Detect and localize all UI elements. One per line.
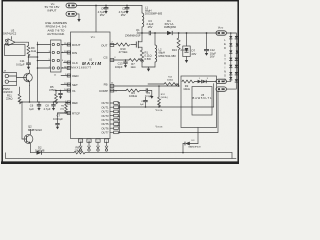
connector JU1 (jumper header) xyxy=(49,40,63,76)
resistor R7 xyxy=(110,59,143,70)
resistor R13 (feedback divider) xyxy=(172,32,189,86)
resistor R1 (sense) xyxy=(140,50,151,67)
node A (switch node) xyxy=(141,32,143,34)
connector K1 (VLED) xyxy=(216,31,226,35)
LED string 2 xyxy=(226,33,239,89)
diode D3 BAR43FILM xyxy=(182,128,200,154)
capacitor C6 xyxy=(29,102,41,111)
wire left bus xyxy=(37,42,51,102)
capacitor C7 (RT/CF) xyxy=(53,113,71,129)
pin SET xyxy=(61,83,78,87)
capacitor C4 xyxy=(98,5,109,17)
resistor R8 xyxy=(74,145,85,154)
border frame xyxy=(2,1,238,163)
wire FB net xyxy=(110,85,180,87)
pin OUT (gate drive) xyxy=(101,42,114,48)
capacitor C5 (comp) xyxy=(140,88,154,98)
diode D1 xyxy=(164,19,177,35)
wire VCC feed xyxy=(95,6,97,33)
ground (R1/L2) xyxy=(142,67,155,72)
wire to LED strings xyxy=(226,32,236,34)
transistor Q2 MMBT2222 xyxy=(22,125,42,153)
capacitor C13 xyxy=(115,59,128,69)
pin GND2 xyxy=(87,139,91,151)
pin GND4 xyxy=(104,139,108,151)
pin RT/CF xyxy=(58,111,81,115)
wire node B to D1 xyxy=(155,32,167,34)
resistor R14 xyxy=(148,77,179,86)
pin FB xyxy=(104,82,114,87)
op-amp U1 MAX16807 (main IC) xyxy=(71,32,111,139)
wire Q3 emitter xyxy=(29,86,31,103)
wire string1 return to OUT bus xyxy=(120,106,214,108)
resistor R12 xyxy=(158,85,168,108)
resistor R5 xyxy=(49,85,57,104)
box U5 network xyxy=(181,76,217,128)
pin DIN xyxy=(61,51,77,55)
capacitor C12 xyxy=(204,32,216,59)
capacitor C10 (bypass) xyxy=(58,90,62,99)
pin COMP xyxy=(99,89,118,93)
diode pair U5 BAW56LT1 xyxy=(193,78,217,100)
connector J2 (input return) xyxy=(66,12,76,17)
node LED STRINGS label xyxy=(224,39,226,82)
transistor Q3 xyxy=(17,70,33,86)
resistor R6 xyxy=(60,102,67,114)
pin V+ xyxy=(56,89,76,93)
LED string 1 xyxy=(226,33,232,81)
connector K3 (string 2 return) xyxy=(216,87,226,91)
inductor L2 xyxy=(155,33,176,67)
resistor R10 xyxy=(116,43,130,54)
wire OUT bus vertical xyxy=(118,103,120,134)
node VCC feed junction xyxy=(95,5,97,7)
capacitor C9 xyxy=(140,97,148,108)
wire K2 drop xyxy=(213,84,215,107)
wire REF net xyxy=(20,101,71,103)
wire VIN rail xyxy=(76,5,142,7)
pin GND3 xyxy=(96,139,100,151)
wire ground bus 1 xyxy=(31,153,233,159)
inductor L1 xyxy=(142,5,163,33)
resistor R11 xyxy=(6,87,21,104)
capacitor C3 (series) xyxy=(147,19,155,35)
pin OE xyxy=(61,74,79,78)
capacitor C2 xyxy=(119,5,130,17)
zener D7 xyxy=(183,32,197,63)
pin EN xyxy=(61,67,71,70)
diode D2 1N4148 xyxy=(35,145,45,154)
jumper usage note xyxy=(45,21,67,36)
connector J3 (PWM input) xyxy=(3,70,17,94)
pin GND1 xyxy=(79,139,83,151)
wire VLED rail xyxy=(172,32,218,34)
pin CLK xyxy=(64,61,78,65)
op-amp U3 buffer xyxy=(3,28,25,55)
wire Q2 base xyxy=(21,102,23,139)
wire ground bus 2 xyxy=(6,153,237,159)
pin REF xyxy=(65,101,78,105)
pins OUT0-OUT7 xyxy=(101,101,118,134)
ground (input return) xyxy=(76,14,80,22)
node VIN label xyxy=(45,2,60,13)
wire string2 return to OUT bus xyxy=(120,91,219,132)
capacitor C8 xyxy=(44,101,56,111)
node B xyxy=(154,32,156,34)
pin DOUT xyxy=(61,43,81,47)
wire switch node xyxy=(137,32,149,34)
wire U3 out xyxy=(15,42,29,45)
resistor R2 xyxy=(182,80,195,91)
transistor Q1 ZXMN6A01F xyxy=(110,28,142,50)
pin CS xyxy=(103,56,116,62)
capacitor C11 xyxy=(16,56,31,69)
connector K2 (string 1 return) xyxy=(216,79,226,83)
connector J1 (VIN input) xyxy=(66,3,76,8)
resistor R4 (comp) xyxy=(110,89,140,98)
resistor R9 xyxy=(27,46,37,58)
